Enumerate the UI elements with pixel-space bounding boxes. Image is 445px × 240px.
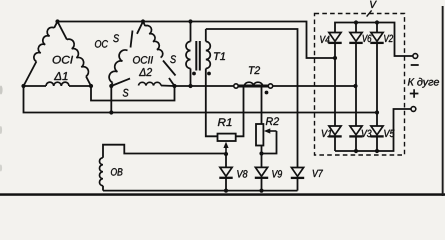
label T2: [249, 66, 260, 74]
transformer T1 primary winding: [190, 22, 192, 42]
diode V8: [225, 154, 227, 167]
diode V2: [376, 23, 378, 33]
label D1: [54, 72, 68, 80]
winding OB with wire to R1 wiper: [103, 145, 226, 158]
resistor R2: [256, 124, 263, 146]
node apex OC-I: [55, 19, 59, 23]
scan smudge left 3: [0, 165, 2, 172]
node bridge leg1 AC input: [333, 56, 337, 60]
label T1: [214, 52, 225, 60]
label R2: [266, 117, 279, 125]
label V1: [322, 130, 332, 137]
diode V7: [291, 168, 303, 177]
label V2: [384, 35, 393, 42]
scan smudge left 1: [0, 86, 3, 95]
wiper arrow R1: [225, 147, 227, 155]
transformer T1 secondary winding: [205, 29, 207, 42]
label V4: [320, 36, 329, 43]
rectifier block V dashed box: [315, 14, 405, 156]
label V9: [272, 170, 282, 177]
diode V9: [255, 167, 267, 176]
node V3 cathode: [354, 149, 358, 153]
winding OC-I left side (delta D1): [54, 22, 57, 28]
wire T2 tap1 to R1 right: [236, 87, 244, 136]
wire T2 tap2 to R2 top: [261, 87, 263, 124]
label S bottom switch: [123, 89, 129, 97]
scan border right: [442, 6, 444, 196]
label K duge: [408, 78, 439, 88]
polarity dot T1 secondary: [207, 72, 211, 76]
winding OC-II right side with switch S: [143, 22, 145, 27]
label V8: [237, 170, 247, 177]
winding OC-II bottom side with switch S: [111, 79, 130, 87]
wiper arrow R2: [269, 130, 277, 132]
winding OC-I right side: [58, 22, 67, 40]
diode V5: [371, 126, 383, 135]
node apex OC-II: [141, 19, 145, 23]
node T1 primary tap on top bus: [188, 19, 192, 23]
label OCII: [133, 56, 153, 63]
diode V1: [329, 126, 341, 135]
node V5 cathode: [375, 149, 379, 153]
node V9 cathode on bus: [259, 189, 263, 193]
node OC-II bottom-right: [172, 84, 176, 88]
wire T2 output to bridge leg2: [273, 85, 356, 87]
wire OC-II bottom-left corner drop: [110, 86, 112, 113]
transformer T2 winding bar: [238, 85, 268, 88]
wire OC-I bottom-right to OC-II bottom-right: [91, 86, 175, 101]
label V5: [384, 130, 394, 137]
terminal plus to arc: [410, 89, 419, 98]
node bridge leg3 AC input: [375, 110, 379, 114]
wire top bus phase A: [58, 22, 336, 59]
transformer T1 core: [195, 41, 197, 71]
node V8 cathode on bus: [224, 189, 228, 193]
terminal circle T2 left: [234, 84, 238, 88]
label V6: [363, 35, 372, 42]
label OC: [95, 40, 108, 47]
wire phase C from OC-I bottom-left to bridge leg3: [24, 86, 378, 113]
wire R2 bottom: [261, 146, 263, 168]
label V3: [362, 130, 372, 137]
label S right switch: [170, 55, 176, 63]
node V6 anode: [354, 20, 358, 24]
label OB: [111, 168, 123, 175]
node OC-I bottom-right: [89, 84, 93, 88]
wire phase B to T2: [175, 85, 235, 87]
label V block: [370, 1, 377, 8]
node R2 bottom junction: [259, 151, 263, 155]
label V7: [313, 170, 323, 177]
winding OC-I bottom side: [24, 85, 47, 87]
transformer T2 winding humps: [245, 82, 263, 85]
terminal circle T2 right: [268, 84, 272, 88]
node T1 primary bottom junction: [188, 84, 192, 88]
scan border bottom: [0, 193, 445, 196]
node OC-I bottom-left: [21, 84, 25, 88]
node R1 wiper junction: [224, 152, 228, 156]
wire control return bus: [103, 190, 298, 192]
terminal minus to arc: [413, 54, 418, 59]
resistor R1: [218, 134, 236, 141]
scan smudge left 2: [0, 126, 2, 134]
wire bridge anode bus to minus: [335, 23, 413, 57]
diode V3: [350, 126, 362, 135]
diode V4: [329, 33, 341, 42]
polarity dot T2: [265, 91, 269, 95]
winding OC-II left side with switch S: [137, 22, 143, 34]
node OC-II bottom-left: [109, 84, 113, 88]
diode V6: [355, 23, 357, 33]
polarity dot T1 primary: [192, 72, 196, 76]
label R1: [218, 118, 232, 126]
wire bridge cathode bus to plus: [335, 109, 411, 151]
label OCI: [53, 56, 73, 64]
node V2 anode: [375, 20, 379, 24]
wire T1 secondary top feed to V7: [206, 29, 298, 168]
node junction phase C / OC-II: [109, 110, 113, 114]
node bridge leg2 AC input: [353, 84, 357, 88]
label D2: [139, 68, 152, 76]
label S left switch: [113, 34, 119, 42]
